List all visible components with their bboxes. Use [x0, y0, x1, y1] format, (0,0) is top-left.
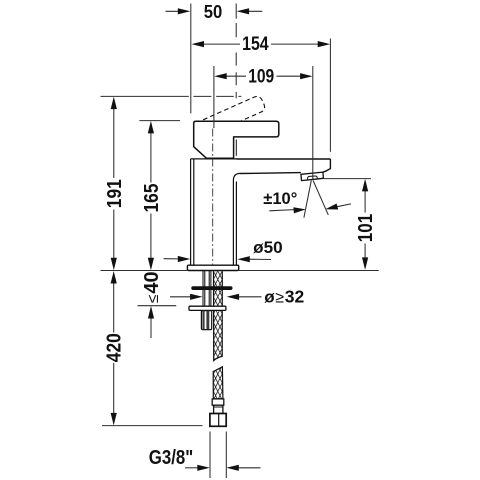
spout tip right edge + chamfer: [323, 159, 330, 172]
svg-text:191: 191: [104, 179, 126, 208]
ext line 50-right (long-dashed below): [235, 4, 237, 99]
leader G38 left: [185, 467, 199, 469]
body left inner edge: [193, 159, 195, 266]
o50 right arrow: [237, 256, 250, 262]
le40 bottom arrow: [148, 306, 154, 319]
154 left arrow: [192, 41, 205, 47]
leader G38 right: [239, 467, 261, 469]
leader pm10 right: [337, 204, 351, 207]
svg-text:ø50: ø50: [253, 238, 283, 257]
ext line 109-right (spray axis): [312, 66, 314, 179]
pm10 right arrow: [325, 204, 338, 210]
upper washer (dark): [191, 286, 232, 290]
svg-text:109: 109: [248, 65, 274, 87]
ext line G38-left: [209, 432, 211, 479]
faucet lever + head block (white fill covers handle overlap): [194, 121, 279, 158]
leader o50 left: [164, 258, 180, 260]
154 right arrow: [318, 41, 331, 47]
svg-text:G3/8": G3/8": [149, 447, 194, 469]
hose nut facet line: [218, 414, 220, 426]
G38 left arrow: [197, 465, 210, 471]
ext line 109-left / centerline upper: [213, 66, 215, 128]
o50 left arrow: [178, 256, 191, 262]
aerator box: [301, 172, 324, 181]
flexible hose lower segment (braided): [213, 367, 223, 399]
165 top arrow: [148, 121, 154, 133]
svg-text:165: 165: [141, 184, 163, 213]
hose neck: [214, 405, 223, 413]
aerator insert detail: [307, 176, 317, 180]
leader pm10 left: [269, 210, 294, 211]
base plate: [187, 265, 238, 270]
165 bottom arrow: [148, 258, 154, 271]
svg-text:420: 420: [104, 333, 126, 362]
dim line 191: [113, 108, 115, 260]
body right inner edge + fillet to spout: [233, 173, 240, 265]
fixing nut / stud below washer: [201, 311, 211, 330]
o32 right arrow: [227, 294, 240, 300]
420 bottom line: [102, 425, 203, 427]
mounting surface line right: [239, 270, 379, 272]
body edge behind lever: [235, 140, 237, 156]
50 right arrow: [237, 8, 250, 14]
threaded rod (tube walls): [203, 271, 211, 307]
hose nut: [210, 414, 226, 427]
svg-text:101: 101: [355, 214, 377, 243]
spout top edge: [191, 158, 331, 160]
hose collar fitting: [212, 399, 224, 405]
flexible hose upper segment (braided): [214, 271, 223, 360]
dim line 50: [166, 10, 263, 12]
101 bottom arrow: [362, 257, 368, 270]
svg-text:±10°: ±10°: [263, 189, 297, 208]
stem le40 bottom: [150, 317, 152, 338]
dim line 165: [150, 132, 152, 260]
pm10 left arrow: [293, 207, 305, 213]
dim line 420: [113, 282, 115, 414]
ext line washer level (le40): [138, 305, 177, 307]
o32 left arrow: [190, 294, 203, 300]
svg-text:50: 50: [204, 2, 223, 22]
191 top arrow: [111, 97, 117, 110]
body column white fill: [191, 160, 237, 266]
svg-text:154: 154: [242, 33, 269, 55]
svg-text:ø≥32: ø≥32: [264, 286, 304, 306]
leader o32 left: [170, 296, 192, 298]
spout underside: [240, 172, 301, 175]
body right outer edge: [235, 182, 237, 266]
ext line 154-right (spout tip): [329, 39, 331, 152]
spray cone line left: [304, 181, 311, 218]
ext line aerator level: [324, 178, 372, 180]
ext line lever-top level: [139, 120, 180, 122]
body left outer edge: [190, 159, 192, 266]
101 top arrow: [362, 179, 368, 192]
ext line handle-top level (with drafting gaps at crossings): [101, 95, 242, 97]
leader o50 right: [248, 258, 271, 260]
raised handle (dashed open position): [203, 95, 266, 135]
mounting surface line left: [101, 270, 188, 272]
leader o32 right: [238, 296, 262, 298]
svg-text:≤40: ≤40: [141, 271, 163, 303]
dim line 109: [226, 75, 300, 77]
420 bottom arrow: [111, 413, 117, 426]
420 top arrow: [111, 271, 117, 284]
spray cone line right: [313, 181, 328, 215]
109 right arrow: [300, 73, 313, 79]
ext line body-left top: [190, 4, 192, 114]
arrowheads: [111, 8, 369, 471]
191 bottom arrow: [111, 258, 117, 271]
109 left arrow: [214, 73, 227, 79]
lower washer (white): [189, 306, 226, 310]
dim line 101: [364, 190, 366, 259]
G38 right arrow: [226, 465, 239, 471]
dim line 154: [204, 43, 319, 45]
faucet body + spout outline (white filled): [191, 159, 331, 181]
hose neck detail line: [214, 406, 223, 408]
ext line G38-right: [225, 432, 227, 479]
50 left arrow: [178, 8, 191, 14]
centerline (dash-dot): [212, 129, 214, 266]
